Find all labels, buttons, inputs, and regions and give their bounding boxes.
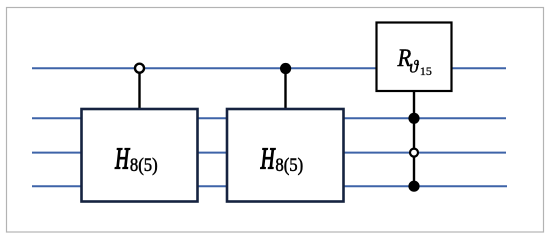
svg-text:H: H <box>114 141 130 176</box>
svg-text:ϑ: ϑ <box>409 56 419 76</box>
svg-text:H: H <box>260 141 276 176</box>
svg-text:8(5): 8(5) <box>130 154 158 176</box>
svg-text:8(5): 8(5) <box>275 154 303 176</box>
svg-text:15: 15 <box>420 64 432 78</box>
